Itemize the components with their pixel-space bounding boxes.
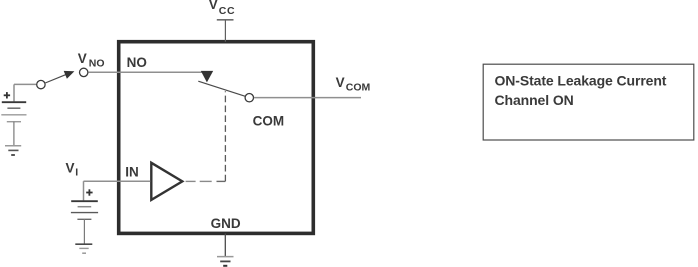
svg-text:Channel ON: Channel ON: [495, 92, 574, 108]
annotation box: [483, 64, 694, 140]
wire VI to IN pin: [84, 180, 151, 182]
svg-text:CC: CC: [219, 5, 235, 17]
node VNO circle: [80, 68, 88, 76]
NO pin label: [127, 55, 147, 70]
annotation text: [495, 72, 667, 108]
VCOM label: [336, 75, 371, 93]
wire GND pin to ground: [224, 233, 226, 256]
VNO label: [78, 51, 105, 69]
wire battery to switch pole: [14, 83, 36, 85]
DUT box outline: [119, 42, 314, 234]
ground symbol (VI source): [75, 244, 92, 253]
svg-text:V: V: [336, 75, 345, 90]
VI label: [66, 160, 79, 178]
dashed control line horizontal buffer to switch: [186, 180, 226, 182]
COM label: [253, 113, 285, 128]
dashed control line vertical to switch arm: [224, 91, 226, 181]
svg-text:COM: COM: [253, 113, 285, 128]
svg-text:GND: GND: [211, 216, 241, 231]
ground symbol (left source): [5, 146, 21, 155]
internal switch arrowhead: [201, 71, 213, 83]
COM contact circle: [245, 94, 253, 102]
internal switch arm: [198, 81, 245, 96]
svg-text:V: V: [66, 160, 75, 175]
wire VI battery to ground: [83, 219, 85, 243]
svg-text:V: V: [78, 51, 87, 66]
ground symbol (GND pin): [217, 257, 234, 266]
wire battery to ground (left source): [13, 122, 15, 146]
svg-text:NO: NO: [89, 57, 105, 69]
voltage source battery for VNO: [1, 84, 26, 121]
voltage source battery for VI: [71, 181, 98, 219]
switch arm (external): [45, 74, 66, 83]
wire VNO to NO pin: [88, 71, 202, 73]
VCC label: [209, 0, 235, 17]
svg-text:I: I: [75, 166, 78, 178]
buffer driver triangle: [151, 163, 182, 200]
svg-text:NO: NO: [127, 55, 147, 70]
svg-text:ON-State Leakage Current: ON-State Leakage Current: [495, 72, 667, 88]
svg-text:IN: IN: [125, 165, 139, 180]
switch arrowhead (external): [64, 71, 75, 79]
switch pole circle (external): [37, 80, 45, 88]
VCC terminal bar: [217, 19, 234, 21]
wire COM to VCOM: [254, 97, 361, 99]
svg-text:COM: COM: [346, 81, 371, 93]
svg-text:V: V: [209, 0, 218, 12]
wire VCC stem to box: [224, 20, 226, 42]
GND pin label: [211, 216, 241, 231]
IN pin label: [125, 165, 139, 180]
